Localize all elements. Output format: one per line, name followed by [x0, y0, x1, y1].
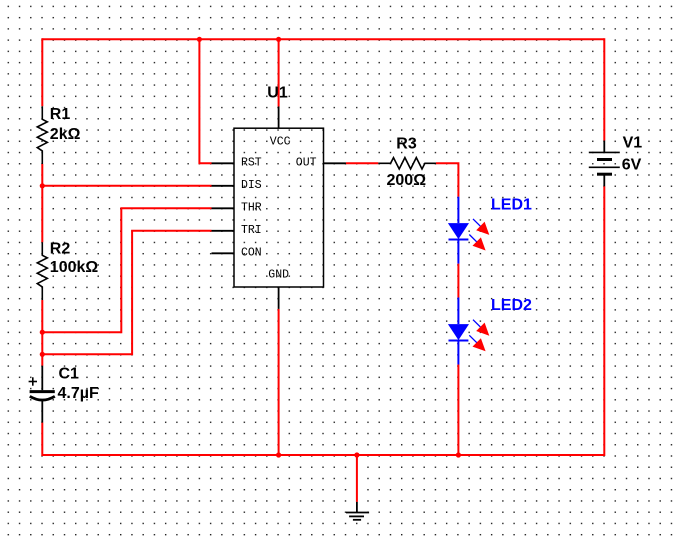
- svg-text:LED2: LED2: [491, 297, 532, 314]
- LED1: [448, 196, 532, 263]
- svg-text:RST: RST: [241, 157, 262, 170]
- pin RST stub: [212, 157, 262, 170]
- pin THR stub: [212, 202, 262, 215]
- svg-text:LED1: LED1: [491, 196, 532, 213]
- node junction DIS left: [40, 183, 45, 188]
- wire right rail below V1: [603, 186, 605, 456]
- node junction LED bottom: [456, 452, 461, 457]
- svg-text:6V: 6V: [622, 157, 642, 174]
- IC U1 555 timer box: [234, 85, 324, 287]
- svg-text:4.7µF: 4.7µF: [58, 385, 99, 402]
- pin OUT stub: [296, 157, 346, 170]
- svg-text:U1: U1: [267, 85, 288, 102]
- wire TRI path: [42, 231, 211, 354]
- node junction top VCC: [276, 37, 281, 42]
- pin CON stub: [212, 247, 262, 260]
- pin TRI stub: [212, 224, 262, 237]
- ground: [346, 502, 369, 520]
- wire VCC branch red part: [278, 39, 280, 106]
- node junction top RST: [197, 37, 202, 42]
- wire left rail segment C1 to bottom: [41, 423, 43, 456]
- wire left rail segment R2 to C1: [41, 300, 43, 366]
- svg-text:2kΩ: 2kΩ: [50, 126, 81, 143]
- wire R3 to LED branch corner: [436, 163, 459, 196]
- svg-text:TRI: TRI: [241, 224, 262, 237]
- capacitor C1: [29, 365, 99, 422]
- wire GND chip red part: [278, 309, 280, 455]
- resistor R2: [37, 240, 98, 300]
- node junction ground stem: [354, 452, 359, 457]
- node junction THR left: [40, 330, 45, 335]
- svg-text:R2: R2: [50, 240, 71, 257]
- wire left rail segment above R1: [41, 38, 43, 106]
- pin GND stub: [268, 269, 289, 309]
- svg-text:CON: CON: [241, 247, 262, 260]
- svg-text:200Ω: 200Ω: [387, 172, 427, 189]
- LED2: [448, 297, 532, 364]
- pin VCC stub: [270, 107, 291, 149]
- node junction TRI left: [40, 352, 45, 357]
- wire right rail above V1: [603, 38, 605, 140]
- wire between LED1 and LED2: [457, 264, 459, 298]
- svg-text:100kΩ: 100kΩ: [50, 259, 99, 276]
- pin DIS stub: [212, 179, 262, 192]
- wire top rail: [42, 38, 604, 40]
- svg-text:R3: R3: [396, 135, 417, 152]
- svg-text:V1: V1: [623, 134, 643, 151]
- wire left rail segment R1 to R2: [41, 164, 43, 242]
- battery V1: [589, 134, 642, 186]
- wire OUT to R3: [346, 162, 378, 164]
- svg-text:R1: R1: [50, 106, 71, 123]
- svg-text:VCC: VCC: [270, 135, 291, 148]
- node junction GND bottom: [276, 452, 281, 457]
- wire THR path: [42, 208, 211, 332]
- resistor R3: [378, 135, 436, 189]
- wire ground stem red part: [356, 455, 358, 502]
- svg-text:THR: THR: [241, 202, 262, 215]
- svg-text:C1: C1: [59, 365, 80, 382]
- svg-text:DIS: DIS: [241, 179, 262, 192]
- wire DIS horizontal: [42, 185, 211, 187]
- svg-text:GND: GND: [268, 269, 289, 282]
- resistor R1: [37, 106, 80, 164]
- wire LED2 to bottom rail: [457, 365, 459, 456]
- wire RST branch from top rail: [199, 39, 211, 163]
- svg-text:OUT: OUT: [296, 157, 317, 170]
- wire bottom rail: [42, 454, 604, 456]
